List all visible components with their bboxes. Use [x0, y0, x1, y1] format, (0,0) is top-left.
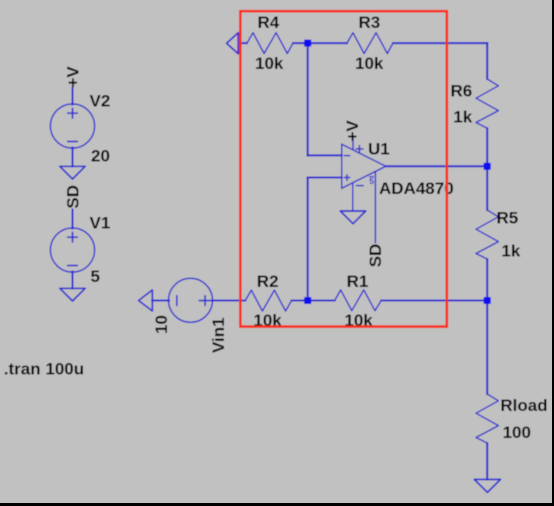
svg-text:+V: +V	[63, 66, 82, 88]
ground under Rload	[474, 479, 500, 492]
window border bottom	[0, 503, 554, 506]
wire: mid junction to R1	[308, 300, 335, 302]
svg-text:R4: R4	[258, 13, 280, 32]
svg-text:Rload: Rload	[500, 396, 547, 415]
wire: V2 top stub	[72, 88, 74, 105]
V2 plus marker	[67, 112, 78, 114]
svg-text:20: 20	[91, 146, 110, 165]
wire: into inverting input	[308, 154, 342, 156]
V1 minus marker	[67, 265, 78, 267]
svg-text:U1: U1	[368, 140, 390, 159]
svg-text:10k: 10k	[355, 54, 384, 73]
resistor R3	[347, 33, 393, 54]
svg-text:10: 10	[152, 315, 171, 334]
wire: output node down to R5	[486, 166, 488, 210]
V2 minus marker	[67, 141, 78, 143]
wire: Rload to ground	[486, 443, 488, 479]
wire: V1 bottom stub to ground	[72, 272, 74, 289]
resistor R2	[245, 290, 291, 311]
ground under V2	[60, 166, 85, 179]
V1 plus marker	[67, 236, 78, 238]
op-amp inverting input marker	[344, 155, 351, 157]
svg-text:R1: R1	[347, 272, 369, 291]
wire: V2 bottom stub to ground	[72, 148, 74, 167]
ground under V1	[60, 288, 85, 301]
svg-text:SD: SD	[366, 244, 385, 268]
wire: into non-inverting input	[308, 177, 342, 179]
Vin1 plus marker	[199, 300, 212, 302]
op-amp U1	[342, 138, 386, 244]
wire: op-amp output to node	[386, 165, 487, 167]
resistor R1	[335, 290, 382, 311]
wire: R6 to output node	[486, 128, 488, 166]
svg-text:R2: R2	[257, 272, 279, 291]
svg-text:R6: R6	[451, 81, 473, 100]
resistor R6	[476, 79, 498, 128]
svg-text:+V: +V	[343, 120, 362, 142]
svg-text:Vin1: Vin1	[209, 317, 228, 353]
Vin1 minus marker	[176, 295, 178, 306]
resistor R4	[247, 33, 293, 54]
op-amp non-inverting input marker	[344, 177, 351, 179]
svg-text:V2: V2	[90, 91, 111, 110]
junction node feedback	[484, 297, 491, 304]
resistor R5	[476, 210, 498, 259]
wire: bottom node down to Rload	[486, 301, 488, 395]
ground arrow left of R4	[227, 33, 239, 54]
wire: non-inverting input down to bottom junction	[307, 178, 309, 301]
junction node output	[484, 163, 491, 170]
svg-text:.tran 100u: .tran 100u	[4, 360, 84, 379]
op-amp V- pin lead	[352, 183, 354, 211]
resistor Rload	[476, 394, 498, 443]
wire top: R4 stub from ground arrow	[239, 42, 247, 44]
wire: V1 top stub	[72, 210, 74, 229]
wire: top junction down to inverting input	[307, 43, 309, 155]
svg-text:SD: SD	[64, 185, 83, 209]
red annotation rectangle	[240, 11, 446, 326]
wire: Vin1 ground arrow to circle	[152, 300, 169, 302]
svg-text:R3: R3	[359, 13, 381, 32]
wire: R5 to bottom node	[486, 259, 488, 301]
voltage source V2 circle	[50, 104, 94, 148]
voltage source V1 circle	[50, 228, 94, 272]
svg-text:R5: R5	[497, 209, 519, 228]
svg-text:V1: V1	[90, 213, 111, 232]
op-amp V- marker	[356, 185, 364, 187]
wire: right rail down to R6	[486, 43, 488, 79]
svg-text:ADA4870: ADA4870	[379, 179, 454, 198]
svg-text:10k: 10k	[255, 54, 284, 73]
ground under op-amp	[340, 211, 365, 224]
window border right	[552, 0, 554, 506]
voltage source Vin1 circle	[169, 278, 213, 322]
op-amp SD pin 5 overline	[369, 176, 374, 178]
op-amp SD pin lead	[374, 172, 376, 244]
wire: Vin1 to R2	[213, 300, 246, 302]
junction node R2/R1	[304, 297, 311, 304]
junction node R4/R3	[304, 40, 311, 47]
wire: R4 right lead to junction and on to R3	[293, 42, 347, 44]
svg-text:5: 5	[91, 267, 100, 286]
wire: R1 to bottom node	[381, 300, 487, 302]
svg-text:5: 5	[369, 176, 374, 186]
svg-text:1k: 1k	[453, 108, 472, 127]
svg-text:1k: 1k	[501, 241, 520, 260]
svg-text:100: 100	[503, 423, 531, 442]
wire: R2 to mid junction	[292, 300, 308, 302]
op-amp V+ marker	[355, 148, 363, 150]
op-amp V+ pin lead	[352, 138, 354, 151]
ground arrow left of Vin1	[139, 290, 153, 311]
wire: R3 to right rail	[393, 42, 487, 44]
